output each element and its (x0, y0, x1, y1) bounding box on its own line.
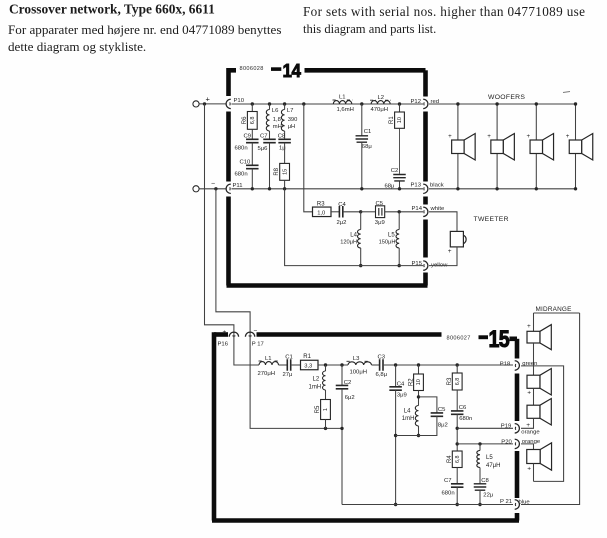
wire bottom rail to P21 (342, 504, 513, 506)
svg-text:C8: C8 (278, 133, 286, 139)
svg-text:C3: C3 (378, 355, 386, 361)
wire woofer top rail (red) (429, 103, 576, 105)
board 8006027 frame right edge (510, 336, 518, 341)
node C2 bottom (398, 187, 401, 190)
svg-text:P 17: P 17 (252, 342, 264, 348)
inductor L2 470uH (370, 99, 376, 101)
svg-text:μH: μH (288, 124, 296, 130)
wire C2 to bottom rail (399, 182, 401, 189)
node C1 bottom (360, 187, 363, 190)
inductor L1 1,6mH (333, 99, 338, 101)
resistor R5 1 (325, 390, 327, 400)
svg-text:470μH: 470μH (371, 107, 388, 113)
node P19 tap (456, 427, 459, 430)
wire C1 to R1 (291, 364, 301, 366)
capacitor C9 680n (251, 129, 253, 139)
capacitor C10 680n (251, 143, 253, 166)
wire L4 to bottom wire (418, 426, 420, 436)
svg-text:P13: P13 (411, 182, 422, 188)
svg-text:L7: L7 (287, 108, 294, 114)
svg-text:L2: L2 (378, 95, 385, 101)
connector P21 (515, 500, 520, 509)
svg-text:100μH: 100μH (350, 370, 367, 376)
capacitor C6 680n (456, 390, 458, 411)
midrange speaker 1 (533, 313, 535, 331)
node C4 at bottom rail (394, 503, 397, 506)
svg-text:68μ: 68μ (362, 144, 372, 150)
node L4 top (359, 210, 362, 213)
svg-text:R2: R2 (408, 378, 414, 386)
svg-text:C2: C2 (344, 380, 352, 386)
resistor R3 6,8 (456, 365, 458, 373)
midrange speaker 2 (527, 369, 551, 396)
wire C7 to bottom rail (269, 143, 271, 189)
wire tweeter bottom rail from R8 column to P15 (285, 189, 423, 266)
svg-text:C2: C2 (391, 168, 399, 174)
connector P16 (229, 332, 238, 337)
capacitor C4 2u2 (331, 211, 339, 213)
svg-text:white: white (430, 206, 445, 212)
svg-text:5μ6: 5μ6 (258, 146, 269, 152)
capacitor C3 6,8u (372, 364, 380, 366)
board 8006027 frame left edge (212, 332, 217, 520)
svg-text:1,8: 1,8 (273, 117, 281, 123)
svg-text:C7: C7 (444, 478, 452, 484)
wire tweeter feed from top rail down (304, 104, 313, 212)
svg-text:P15: P15 (412, 261, 423, 267)
svg-text:C4: C4 (397, 381, 405, 387)
svg-text:mH: mH (273, 124, 282, 130)
svg-text:P10: P10 (234, 98, 245, 104)
node after L1 (360, 102, 363, 105)
wire P17 down to return rail (250, 338, 342, 429)
junction input- (214, 187, 217, 190)
input terminal + (top) (193, 101, 199, 107)
svg-text:68μ: 68μ (385, 184, 395, 190)
input terminal - (bottom) (193, 186, 199, 192)
svg-text:+: + (223, 329, 227, 336)
svg-text:8μ2: 8μ2 (438, 422, 448, 428)
inductor L5 150uH (398, 212, 400, 230)
wire R8 to bottom rail (284, 180, 286, 189)
wire P16 down to main line (234, 338, 259, 365)
svg-text:1mH: 1mH (309, 385, 322, 391)
wire R5 to return rail (325, 420, 327, 429)
resistor R4 6,8 (452, 451, 462, 468)
svg-text:680n: 680n (459, 416, 472, 422)
svg-text:C6: C6 (459, 405, 467, 411)
resistor R2 10 (418, 365, 420, 374)
svg-text:2μ2: 2μ2 (337, 220, 347, 226)
svg-text:22μ: 22μ (483, 492, 493, 498)
svg-text:L6: L6 (272, 108, 279, 114)
resistor R1 3,3 (301, 360, 319, 370)
wire speaker3 to P19 wire (521, 418, 534, 428)
svg-text:L5: L5 (388, 232, 395, 238)
wire from + input down to P16 of board 8006027 (205, 104, 234, 338)
capacitor C1 27u (279, 364, 288, 366)
resistor R6 6,8 (251, 104, 253, 112)
board label -15 (479, 325, 510, 352)
wire midrange top bracket (534, 312, 580, 314)
wire from - input down to P17 of board 8006027 (216, 189, 250, 338)
svg-text:+: + (448, 133, 452, 140)
wire C4 to node (343, 211, 361, 213)
svg-text:−: − (211, 181, 215, 188)
wire C10 to bottom rail (251, 169, 253, 189)
svg-text:green: green (522, 361, 537, 367)
svg-text:10: 10 (397, 117, 403, 123)
svg-text:14: 14 (283, 60, 301, 81)
wire tweeter to P15 (429, 247, 457, 266)
node top of R6 column (251, 102, 254, 105)
svg-text:R3: R3 (447, 377, 453, 385)
connector P20 (515, 439, 520, 448)
svg-text:P19: P19 (501, 424, 511, 430)
wire P19 tap to connector (457, 427, 513, 429)
svg-text:P12: P12 (411, 99, 421, 105)
svg-text:C10: C10 (240, 159, 252, 165)
wire green from P18 to speaker 4 bottom (521, 366, 564, 482)
woofer speaker 3 (535, 104, 537, 140)
inductor L2 1mH (325, 365, 327, 371)
node P20 tap (456, 442, 459, 445)
connector P11 (226, 184, 231, 193)
svg-text:−: − (254, 328, 258, 335)
svg-text:6,8: 6,8 (250, 117, 256, 125)
wire C8 to bottom rail (479, 490, 481, 505)
connector P14 (423, 207, 428, 216)
tweeter speaker (450, 231, 466, 247)
svg-text:L1: L1 (339, 94, 346, 100)
svg-text:this diagram and parts list.: this diagram and parts list. (303, 22, 436, 36)
connector P17 (245, 332, 254, 337)
capacitor C5 8u2 (419, 397, 437, 413)
wire speaker4 to green wire (533, 464, 535, 482)
wire top rail from P10 to P12 (232, 103, 424, 105)
node L5 top (398, 210, 401, 213)
svg-text:C8: C8 (481, 478, 489, 484)
svg-text:47μH: 47μH (486, 463, 500, 469)
inductor L5 47uH (479, 444, 481, 451)
svg-text:150μH: 150μH (379, 239, 396, 245)
wire C4 down to junction and bottom rail (395, 390, 397, 504)
board 8006028 frame bottom edge (227, 283, 428, 288)
svg-text:6,8: 6,8 (455, 455, 461, 463)
wire L5 to tweeter rail (398, 248, 400, 266)
woofer speaker 2 (496, 104, 498, 140)
connector P13 (423, 184, 428, 193)
svg-text:P14: P14 (412, 206, 423, 212)
node R2 bottom (417, 395, 420, 398)
node tweeter branch tap (302, 102, 305, 105)
svg-text:+: + (448, 248, 452, 255)
board 8006028 frame right edge (423, 70, 428, 96)
node C7 bottom (456, 503, 459, 506)
node C2 top (340, 363, 343, 366)
inductor L6 1,8mH (269, 104, 271, 110)
svg-text:R4: R4 (447, 455, 453, 463)
svg-text:C7: C7 (260, 133, 268, 139)
wire speaker2 to speaker3 (533, 388, 535, 405)
node R5 bottom on return rail (324, 427, 327, 430)
svg-text:390: 390 (288, 117, 298, 123)
connector P10 (226, 99, 231, 108)
node bottom of C10 column (251, 187, 254, 190)
inductor L3 100uH (347, 360, 352, 362)
svg-text:P16: P16 (218, 342, 229, 348)
svg-text:P20: P20 (501, 439, 512, 445)
svg-text:27μ: 27μ (283, 372, 293, 378)
svg-text:P 21: P 21 (500, 499, 512, 505)
svg-text:For sets with serial nos. high: For sets with serial nos. higher than 04… (303, 4, 585, 19)
svg-text:P18: P18 (500, 361, 511, 367)
wire C6 down through P19/P20 taps (456, 414, 458, 451)
svg-text:120μH: 120μH (340, 239, 357, 245)
capacitor C1 68u (361, 104, 363, 136)
svg-text:C1: C1 (285, 355, 293, 361)
node C4 top (394, 363, 397, 366)
capacitor C5 3u9 (361, 211, 376, 213)
svg-text:10: 10 (416, 379, 422, 385)
svg-text:+: + (527, 390, 531, 397)
node bottom of R8 column (283, 187, 286, 190)
node after L2 (398, 102, 401, 105)
wire woofer bottom rail (black) (429, 188, 576, 190)
svg-text:R6: R6 (242, 116, 248, 124)
node top of L6 column (268, 102, 271, 105)
svg-text:L2: L2 (313, 376, 320, 382)
svg-text:+: + (527, 465, 531, 472)
svg-text:680n: 680n (235, 172, 248, 178)
svg-text:1,6mH: 1,6mH (337, 107, 354, 113)
wire C1 to bottom rail (361, 142, 363, 189)
capacitor C7 680n (456, 468, 458, 484)
capacitor C2 6u2 (341, 365, 343, 385)
svg-text:L4: L4 (350, 232, 357, 238)
woofer speaker 1 (457, 104, 459, 140)
connector P12 (423, 99, 428, 108)
svg-text:orange: orange (522, 439, 541, 445)
wire P14 to tweeter (429, 212, 457, 232)
svg-text:R5: R5 (315, 405, 321, 413)
connector P19 (515, 424, 520, 433)
stray pencil dash (563, 92, 570, 93)
board 8006028 frame top-left corner (229, 68, 237, 73)
svg-text:8006027: 8006027 (447, 335, 471, 341)
svg-text:+: + (206, 95, 211, 104)
wire bottom rail from P11 to P13 (232, 188, 424, 190)
capacitor C2 68u (399, 128, 401, 174)
wire C7 to bottom rail (456, 487, 458, 504)
svg-text:6,8μ: 6,8μ (376, 372, 388, 378)
svg-text:MIDRANGE: MIDRANGE (536, 306, 572, 313)
svg-text:C1: C1 (364, 129, 372, 135)
resistor R8 15 (284, 143, 286, 164)
svg-text:P11: P11 (233, 183, 243, 189)
wire C2 column down to bottom rail (341, 389, 343, 505)
connector P15 (423, 261, 428, 270)
capacitor C8 1u (284, 131, 286, 139)
inductor L4 120uH (360, 212, 362, 230)
svg-text:8006028: 8006028 (240, 66, 264, 72)
wire R2 to L4 node (418, 391, 420, 406)
svg-text:3μ9: 3μ9 (397, 393, 407, 399)
node L5 top (478, 442, 481, 445)
svg-text:R1: R1 (303, 354, 311, 360)
connector P18 (515, 361, 520, 370)
wire input- to P11 (199, 188, 225, 190)
wire P20 tap to connector (457, 443, 513, 445)
board 8006027 frame bottom edge (212, 518, 519, 523)
svg-text:C4: C4 (338, 202, 346, 208)
svg-text:C5: C5 (438, 407, 446, 413)
svg-text:blue: blue (519, 499, 531, 505)
svg-text:WOOFERS: WOOFERS (488, 94, 525, 101)
wire blue return from P21 up right side (521, 313, 580, 505)
board label -14 (271, 60, 301, 81)
node L4 bottom (417, 434, 420, 437)
svg-text:Crossover network, Type 660x,: Crossover network, Type 660x, 6611 (9, 2, 215, 17)
node C8 bottom (478, 503, 481, 506)
svg-text:3,3: 3,3 (304, 364, 312, 370)
svg-text:680n: 680n (442, 490, 455, 496)
wire R1 to node (318, 364, 348, 366)
wire C5 to bottom wire (396, 416, 437, 435)
svg-text:C9: C9 (244, 133, 252, 139)
node C2 column at return rail (340, 427, 343, 430)
svg-text:15: 15 (489, 325, 510, 352)
svg-text:6,8: 6,8 (455, 378, 461, 386)
node R3 top (456, 363, 459, 366)
node L2 top (324, 363, 327, 366)
svg-text:dette diagram og stykliste.: dette diagram og stykliste. (8, 39, 146, 54)
svg-text:L4: L4 (404, 408, 411, 414)
junction input+ (203, 102, 206, 105)
svg-text:+: + (566, 133, 570, 140)
wire C5 to P14 (385, 211, 423, 213)
node C4 at L4/C5 bottom wire (394, 434, 397, 437)
svg-text:orange: orange (521, 429, 540, 435)
wire P20 to speaker 4 (521, 444, 534, 450)
capacitor C4 3u9 (395, 365, 397, 387)
svg-text:+: + (527, 323, 531, 330)
wire C3 to R3 column (383, 364, 513, 366)
svg-text:L3: L3 (353, 356, 360, 362)
svg-text:C5: C5 (376, 201, 384, 207)
board 8006027 frame top edge (214, 332, 228, 337)
inductor L7 390uH (284, 104, 286, 110)
svg-text:15: 15 (282, 169, 288, 175)
wire L4 to tweeter rail (360, 248, 362, 266)
svg-text:+: + (527, 133, 531, 140)
svg-text:1,0: 1,0 (317, 210, 325, 216)
svg-text:3μ9: 3μ9 (375, 220, 385, 226)
node top of L7 column (283, 102, 286, 105)
node R2 top (417, 363, 420, 366)
svg-text:R8: R8 (274, 167, 280, 175)
svg-text:R3: R3 (317, 202, 325, 208)
woofer speaker 4 (575, 104, 577, 140)
svg-text:270μH: 270μH (258, 371, 275, 377)
svg-text:1mH: 1mH (402, 416, 415, 422)
midrange speaker 3 (527, 399, 551, 426)
capacitor C8 22u (479, 468, 481, 484)
svg-text:L1: L1 (265, 356, 272, 362)
wire input+ to P10 (199, 103, 225, 105)
svg-text:TWEETER: TWEETER (474, 216, 509, 223)
node bottom of C7 column (268, 187, 271, 190)
resistor R1 10 (399, 104, 401, 112)
svg-text:For apparater med højere nr. e: For apparater med højere nr. end 0477108… (8, 22, 281, 37)
inductor L1 270uH (259, 360, 264, 362)
svg-text:+: + (487, 133, 491, 140)
svg-text:680n: 680n (235, 146, 248, 152)
resistor R3 1,0 (313, 207, 332, 217)
svg-text:1: 1 (323, 408, 329, 411)
inductor L4 1mH (415, 406, 418, 426)
svg-text:R1: R1 (389, 116, 395, 124)
svg-text:6μ2: 6μ2 (345, 395, 355, 401)
wire speaker1 to speaker2 (533, 343, 535, 375)
midrange speaker 4 (527, 443, 552, 470)
board 8006028 frame left edge (226, 112, 231, 182)
svg-text:black: black (430, 182, 444, 188)
board 8006028 frame top edge (305, 68, 426, 73)
svg-text:L5: L5 (486, 455, 493, 461)
capacitor C7 5u6 (269, 131, 271, 139)
